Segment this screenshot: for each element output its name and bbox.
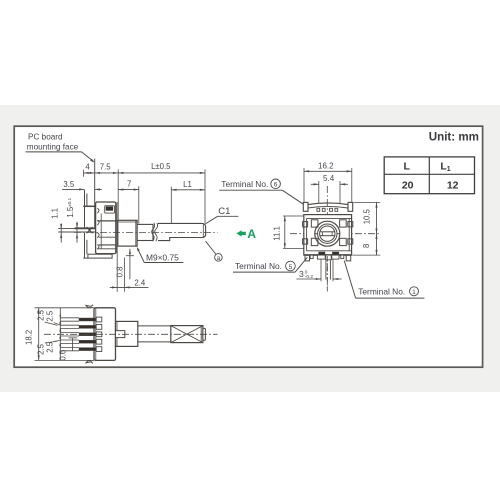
svg-text:1.1: 1.1 — [50, 208, 59, 219]
centerline upper view — [74, 231, 218, 233]
body internal lines — [97, 220, 118, 222]
terminal junction X mark — [87, 227, 93, 233]
plate right ear — [348, 202, 353, 211]
extension line bushing end — [138, 186, 140, 223]
svg-text:8: 8 — [362, 244, 371, 248]
svg-text:6: 6 — [274, 182, 278, 189]
extension 16.2 right — [351, 168, 353, 202]
svg-text:C1: C1 — [218, 206, 230, 217]
svg-text:5: 5 — [289, 264, 293, 271]
mounting leg right — [346, 255, 351, 261]
screwdriver slot — [320, 231, 335, 233]
extension line bushing front — [117, 169, 119, 220]
shaft first section — [137, 224, 153, 240]
svg-text:3.5: 3.5 — [63, 180, 75, 189]
front body square — [304, 215, 352, 256]
pot body side view — [96, 202, 116, 254]
extension line mounting face (PC board face) — [94, 159, 96, 228]
extension line shaft end — [204, 169, 206, 223]
body right wall — [116, 202, 118, 254]
terminal pads on body — [96, 317, 102, 322]
svg-text:M9×0.75: M9×0.75 — [146, 252, 179, 262]
ext 18.2 bottom — [35, 359, 92, 361]
svg-text:L1: L1 — [183, 180, 192, 189]
terminal upper view — [58, 227, 95, 229]
extension 16.2 left — [303, 168, 305, 202]
ext 3dim left — [320, 260, 322, 282]
shaft S-break lines — [152, 223, 155, 241]
svg-text:1: 1 — [412, 289, 416, 296]
body clips — [86, 305, 94, 308]
centerline lower view — [44, 333, 218, 335]
front view horizontal centerline — [290, 233, 379, 235]
dim chain 4 / 7.5 / L±0.5 — [84, 172, 206, 174]
ext 18.2 top — [35, 307, 92, 309]
svg-text:2.4: 2.4 — [134, 278, 146, 287]
shaft end cap lower — [203, 328, 206, 340]
front view vertical centerline — [326, 186, 328, 292]
bottom terminals black pads — [319, 252, 325, 255]
center pin — [325, 260, 327, 280]
svg-text:20: 20 — [402, 179, 414, 191]
svg-text:7: 7 — [127, 180, 131, 189]
ext 11.1 top — [283, 215, 304, 217]
svg-text:Unit: mm: Unit: mm — [429, 130, 479, 143]
knurled section — [171, 326, 203, 343]
svg-text:7.5: 7.5 — [100, 162, 112, 171]
view arrow A (green) — [236, 230, 245, 236]
ext top right — [354, 201, 381, 203]
svg-text:2.5: 2.5 — [36, 343, 45, 355]
svg-text:12: 12 — [447, 179, 459, 191]
terminal tip line / 2.5 dim line — [59, 308, 61, 361]
svg-text:A: A — [247, 227, 256, 241]
svg-text:PC board: PC board — [28, 133, 63, 142]
inner bottom line — [307, 250, 351, 252]
terminals lower view — [60, 317, 79, 319]
svg-text:Terminal No.: Terminal No. — [358, 287, 405, 297]
2.5 dim arrows — [59, 315, 61, 319]
extension line mounting face left — [83, 170, 85, 177]
wave washer bumps — [97, 208, 99, 213]
svg-text:Terminal No.: Terminal No. — [235, 261, 282, 271]
shaft end chamfer line — [202, 223, 204, 237]
svg-text:a: a — [217, 255, 221, 262]
svg-text:10.5: 10.5 — [363, 208, 372, 224]
body detail hole outline — [105, 206, 115, 213]
mounting leg left — [305, 255, 310, 261]
svg-text:16.2: 16.2 — [318, 161, 334, 170]
table L-L1 — [384, 157, 474, 194]
svg-text:2.5: 2.5 — [45, 310, 54, 322]
svg-text:4: 4 — [85, 162, 90, 171]
plate left ear — [303, 202, 308, 211]
body detail hole black — [106, 206, 113, 210]
square bottom edge thick — [304, 254, 351, 256]
svg-text:2.5: 2.5 — [36, 309, 45, 321]
mounting leg lower + foot — [84, 233, 86, 258]
bushing lower view — [116, 321, 138, 346]
svg-text:18.2: 18.2 — [25, 330, 34, 345]
2.5 leader bends — [45, 322, 58, 325]
extension 5.4 right — [339, 181, 341, 204]
label circled a — [215, 254, 223, 262]
inner side lines — [306, 218, 308, 250]
mounting plate arched top — [308, 203, 348, 211]
pot body lower view — [94, 308, 116, 361]
rotor circles — [315, 221, 340, 246]
edge notch rects — [303, 222, 308, 227]
svg-text:11.1: 11.1 — [273, 226, 282, 241]
extension line flat start — [170, 187, 172, 224]
ext bottom right — [353, 254, 381, 256]
ext 11.1 bottom — [283, 247, 310, 249]
extension lines 2.4 — [116, 246, 118, 292]
svg-text:0.6: 0.6 — [58, 350, 67, 361]
inner top line — [307, 217, 351, 219]
svg-text:5.4: 5.4 — [323, 174, 335, 183]
anti-rotation tab — [116, 331, 125, 338]
plate hanging tabs — [317, 208, 320, 211]
svg-text:L±0.5: L±0.5 — [151, 162, 171, 171]
mounting leg upper — [84, 190, 86, 228]
ext 3dim right — [332, 260, 334, 282]
side tick marks — [314, 233, 317, 235]
svg-text:L: L — [403, 160, 410, 172]
gray backdrop band — [0, 105, 500, 392]
svg-text:mounting face: mounting face — [27, 143, 79, 152]
drawing frame — [14, 126, 482, 367]
extension 5.4 left — [318, 181, 320, 204]
bushing — [118, 220, 137, 246]
rotor inner edge — [100, 213, 102, 248]
shaft lower view — [138, 325, 171, 327]
shaft outer section with flat — [158, 223, 206, 240]
bottom tabs — [310, 255, 313, 258]
svg-text:Terminal No.: Terminal No. — [221, 179, 268, 189]
corner notch rects — [311, 220, 318, 227]
